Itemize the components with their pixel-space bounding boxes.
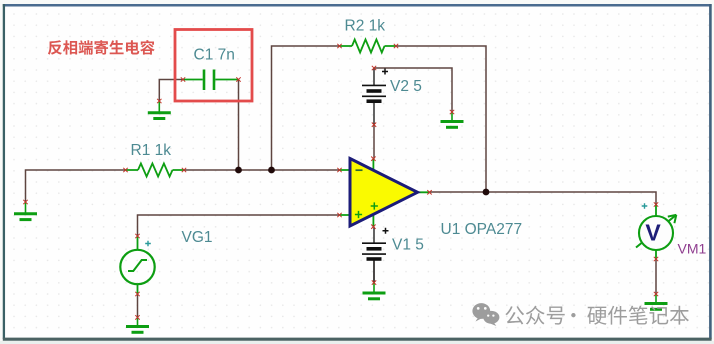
wire: op-amp output to VM1 [430,192,657,205]
wire: left input horizontal to R1 and down to ground [26,170,126,202]
wire: R2 right to output node vertical [396,46,486,192]
label R1 1k [131,142,172,159]
battery V2 [362,68,388,125]
svg-text:V: V [645,219,661,245]
pin U1 inverting input (red x marker) [337,168,341,172]
pin U1 V- supply (red x marker) [371,225,375,229]
pin VG1 bottom (red x marker) [135,292,139,296]
node: output junction [483,189,490,196]
wire: VG1 top to op-amp non-inverting input [138,215,340,236]
wire: VM1 bottom to ground [655,259,657,294]
wire: V2 bottom to op-amp V+ pin [373,125,375,159]
label VM1 [678,241,707,257]
op-amp U1 input/output leads [340,170,430,215]
wire: capacitor C1 right pin down to inverting node [238,80,240,171]
pin U1 V+ supply (red x marker) [371,157,375,161]
pin V1 bottom (red x marker) [372,280,376,284]
wire: feedback left vertical from inverting node up to R2 [272,46,340,170]
pin R1 right (red x marker) [182,168,186,172]
label C1 7n [194,47,235,64]
red annotation text 反相端寄生电容 [48,40,155,55]
label U1 OPA277 [441,221,523,238]
pin R1 left (red x marker) [123,168,127,172]
svg-text:VM1: VM1 [678,241,707,257]
ground below C1 left lead [148,101,171,119]
op-amp U1 supply stems [372,159,374,227]
ground at left input [14,202,37,220]
op-amp U1 triangle [350,159,418,227]
svg-text:C1 7n: C1 7n [194,47,235,64]
label VG1 [182,229,213,246]
pin V2 top (red x marker) [372,66,376,70]
wire: VG1 bottom to ground [137,294,139,317]
label R2 1k [345,18,386,35]
source VG1 [120,236,154,294]
op-amp U1 minus input marker [356,169,363,171]
pin VM1 bottom (red x marker) [654,257,658,261]
wire: V1 bottom to ground [373,260,375,283]
pin R2 left (red x marker) [337,44,341,48]
pin ground at V2 (red x marker) [450,110,454,114]
ground below VG1 [126,317,149,332]
red highlight box around C1 [175,30,252,102]
voltmeter VM1 [636,203,676,259]
ground below V1 [363,283,386,299]
capacitor C1 [183,70,239,91]
svg-text:R2 1k: R2 1k [345,18,386,35]
ground below VM1 [645,294,668,309]
pin R2 right (red x marker) [394,44,398,48]
svg-text:V2 5: V2 5 [390,78,422,95]
op-amp U1 plus input marker [355,211,362,218]
label V1 5 [392,237,424,254]
pin C1 right (red x marker) [236,77,240,81]
svg-text:VG1: VG1 [182,229,213,246]
svg-text:R1 1k: R1 1k [131,142,172,159]
pin U1 output (red x marker) [427,190,431,194]
resistor R2 [340,40,397,53]
pin U1 non-inverting input (red x marker) [337,213,341,217]
wire: R1 right lead to op-amp inverting input [184,169,340,171]
wire: V2 positive terminal to ground on right [374,68,452,112]
pin C1 left (red x marker) [181,77,185,81]
svg-text:U1 OPA277: U1 OPA277 [441,221,523,238]
node: feedback junction on inverting net [268,167,275,174]
pin ground at VM1 (red x marker) [654,292,658,296]
op-amp U1 plus supply marker [371,202,378,209]
battery V1 [362,227,389,283]
ground right of V2 [441,112,464,127]
node: C1 junction on inverting net [235,167,242,174]
resistor R1 [126,164,185,177]
pin V2 bottom (red x marker) [372,123,376,127]
wire: capacitor C1 left lead to ground [159,80,183,102]
svg-text:V1 5: V1 5 [392,237,424,254]
watermark wechat icon [472,303,499,326]
pin ground at left input (red x marker) [23,200,27,204]
pin ground at C1 (red x marker) [157,99,161,103]
pin ground at VG1 (red x marker) [135,315,139,319]
watermark text 公众号·硬件笔记本 [505,306,689,325]
label V2 5 [390,78,422,95]
pin VM1 top (red x marker) [654,202,658,206]
pin VG1 top (red x marker) [135,234,139,238]
